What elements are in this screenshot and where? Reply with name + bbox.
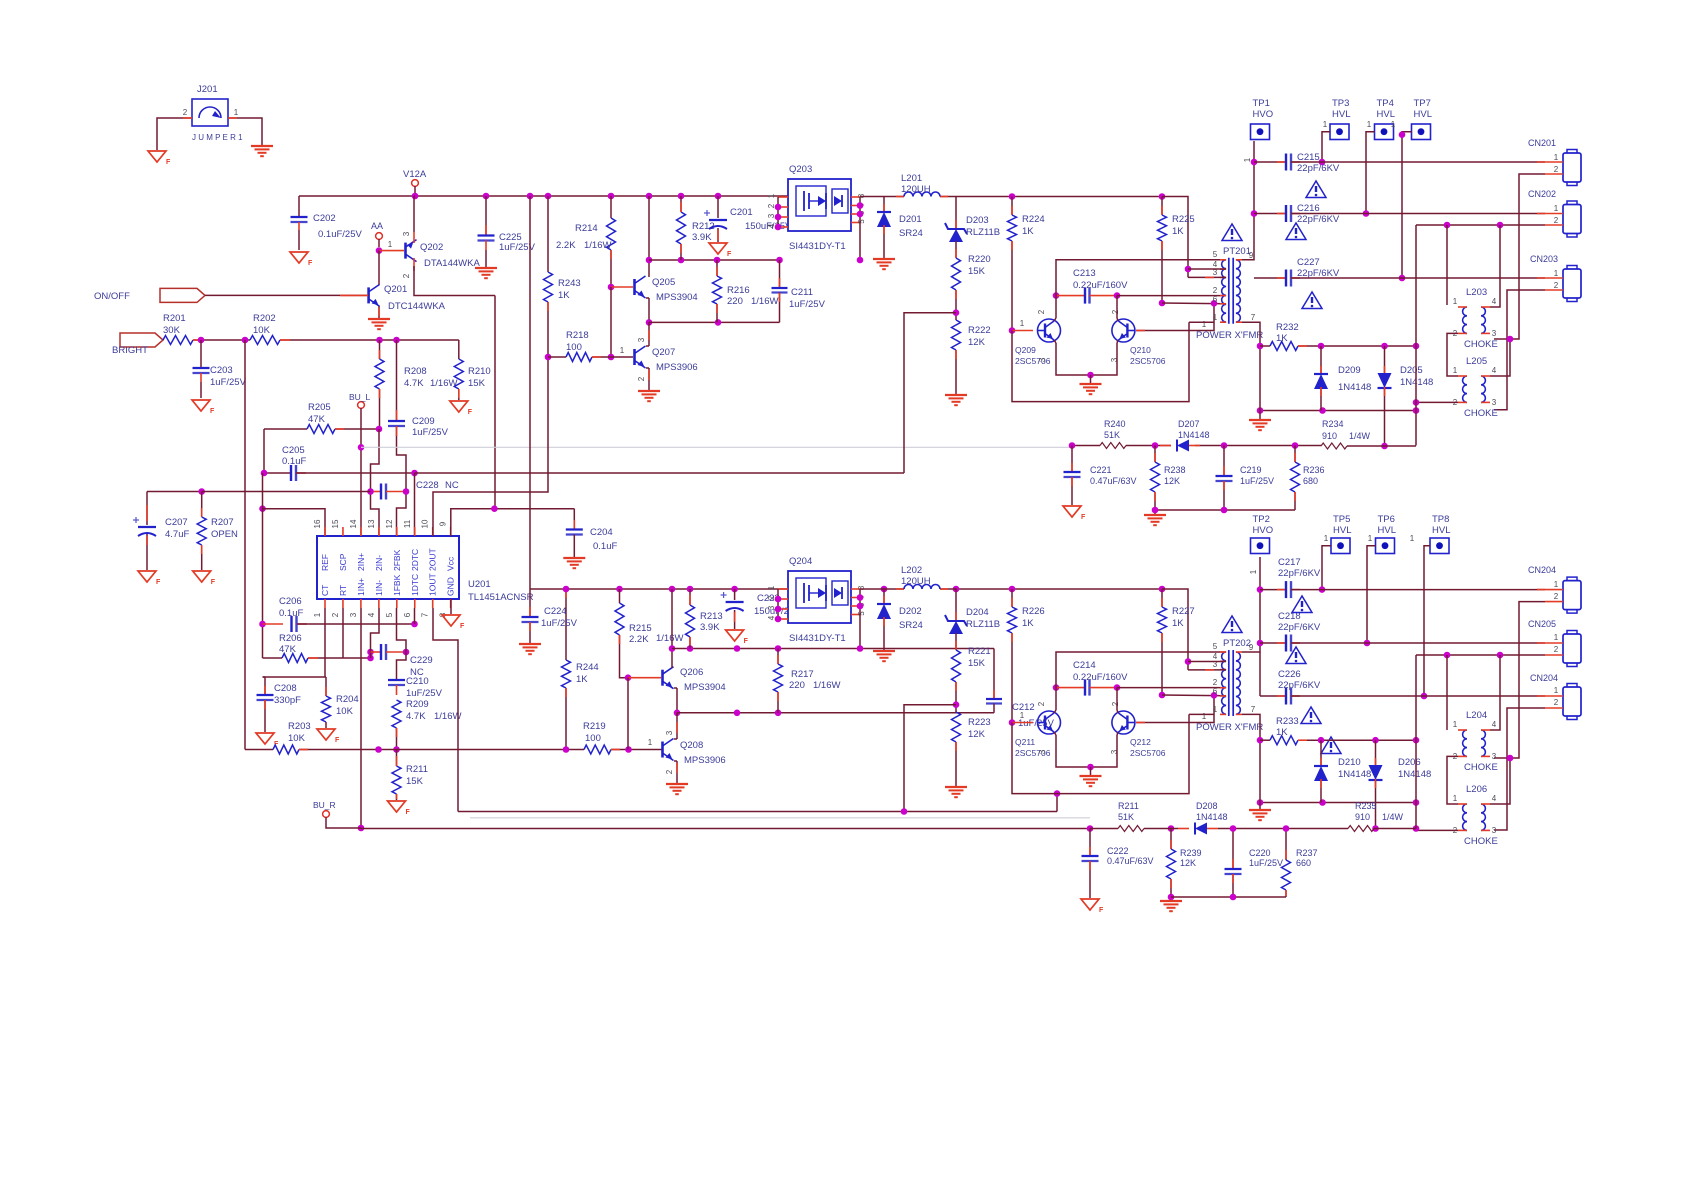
svg-text:DTC144WKA: DTC144WKA	[388, 301, 446, 312]
wire R222 to ground	[955, 350, 957, 394]
svg-text:F: F	[166, 159, 171, 166]
connector CN201	[1567, 150, 1577, 155]
svg-text:2: 2	[1554, 216, 1559, 225]
svg-text:C222: C222	[1107, 846, 1129, 856]
svg-text:1: 1	[1020, 319, 1025, 328]
wire R215 node down to R219 row	[627, 678, 629, 750]
svg-text:10K: 10K	[288, 733, 306, 744]
svg-text:1/16W: 1/16W	[430, 378, 457, 389]
svg-text:C207: C207	[165, 517, 188, 528]
svg-text:4: 4	[367, 612, 376, 617]
wire HV return vertical right	[1415, 225, 1417, 446]
svg-text:C203: C203	[210, 365, 233, 376]
svg-text:1: 1	[1324, 534, 1329, 543]
svg-text:1: 1	[1554, 633, 1559, 642]
svg-text:0.1uF: 0.1uF	[593, 541, 617, 552]
svg-text:DTA144WKA: DTA144WKA	[424, 258, 480, 269]
diode D202 SR24	[883, 589, 885, 605]
svg-text:Q211: Q211	[1015, 737, 1035, 747]
wire L203 pin2 to L205 pin1	[1447, 333, 1458, 376]
svg-text:R233: R233	[1276, 716, 1299, 727]
row 1DTC bottom	[458, 811, 1057, 813]
svg-text:R222: R222	[968, 325, 991, 336]
test point TP2	[1251, 538, 1270, 554]
svg-text:C217: C217	[1278, 557, 1301, 568]
svg-text:R214: R214	[575, 223, 598, 234]
wire BU_L to lamp-sense faint net	[361, 446, 1072, 448]
svg-text:47K: 47K	[308, 414, 326, 425]
svg-text:30K: 30K	[163, 325, 181, 336]
svg-text:CN205: CN205	[1528, 619, 1556, 629]
wire pin7 staircase down	[433, 608, 458, 812]
wire Q208 collector up to row2b	[674, 738, 677, 740]
F ground (R207)	[193, 571, 211, 582]
svg-text:R219: R219	[583, 721, 606, 732]
wire PT202 pin1 down-left	[1189, 713, 1214, 715]
lower rail	[530, 588, 788, 590]
svg-text:C211: C211	[791, 287, 813, 298]
svg-text:2IN-: 2IN-	[374, 555, 384, 571]
earth ground (Q207)	[638, 390, 660, 392]
wire CN203 pin2 to choke L205 pin3	[1494, 290, 1545, 410]
earth ground (Q208)	[666, 783, 688, 785]
wire choke drop to L204 pin1	[1446, 655, 1448, 730]
svg-text:3: 3	[1038, 357, 1047, 362]
transistor Q205 MPS3904	[633, 279, 636, 295]
resistor R201 30K	[163, 336, 193, 345]
svg-text:C213: C213	[1073, 268, 1096, 279]
svg-text:14: 14	[349, 519, 358, 528]
svg-text:RT: RT	[338, 585, 348, 596]
svg-text:2: 2	[665, 769, 674, 774]
svg-text:SR24: SR24	[899, 620, 923, 631]
svg-text:22pF/6KV: 22pF/6KV	[1278, 568, 1321, 579]
svg-text:CT: CT	[320, 585, 330, 596]
junction C221	[1069, 442, 1076, 449]
wire L205 pin2 to HV return	[1416, 401, 1458, 403]
svg-text:OPEN: OPEN	[211, 529, 238, 540]
svg-text:1: 1	[1202, 320, 1207, 329]
svg-text:1FBK: 1FBK	[392, 574, 402, 596]
svg-text:R207: R207	[211, 517, 234, 528]
net BU_L terminal	[358, 402, 365, 409]
svg-text:1: 1	[1453, 794, 1458, 803]
resistor R235 910 1/4W	[1348, 826, 1374, 832]
svg-text:6: 6	[403, 612, 412, 617]
svg-text:C228: C228	[416, 480, 439, 491]
capacitor C202	[298, 196, 300, 217]
IC U201 TL1451ACNSR	[317, 536, 459, 599]
svg-text:1uF/25V: 1uF/25V	[1240, 476, 1274, 486]
svg-text:R202: R202	[253, 313, 276, 324]
transistor Q211 2SC5706	[1038, 711, 1061, 734]
transistor Q202 DTA144WKA	[404, 243, 407, 259]
wire CN204L pin2 to choke L206 pin3	[1494, 708, 1545, 830]
svg-text:D204: D204	[966, 607, 989, 618]
wire REF branch to pin16	[259, 505, 266, 512]
svg-text:1: 1	[1453, 297, 1458, 306]
svg-text:3: 3	[1038, 749, 1047, 754]
wire PT201 pin7 to R232 row	[1242, 322, 1260, 419]
svg-text:HVO: HVO	[1253, 109, 1274, 120]
earth ground (D201)	[873, 258, 895, 260]
wire lower rail right section	[957, 588, 1162, 590]
earth ground (C225)	[475, 267, 497, 269]
wire 1DTC riser	[904, 705, 956, 812]
svg-text:7: 7	[1251, 705, 1256, 714]
svg-text:120UH: 120UH	[901, 184, 931, 195]
capacitor C217 22pF/6KV	[1260, 589, 1286, 591]
svg-text:R238: R238	[1164, 465, 1186, 475]
svg-text:1N4148: 1N4148	[1178, 430, 1210, 440]
svg-text:1: 1	[767, 585, 776, 590]
connector CN205	[1567, 631, 1577, 636]
capacitor C213 0.22uF/160V	[1053, 292, 1060, 299]
transformer PT202	[1228, 650, 1230, 716]
wire PT202 pin4 stub	[1188, 661, 1226, 663]
resistor R209 4.7K	[392, 700, 401, 728]
test point TP1	[1251, 124, 1270, 140]
resistor R236 680	[1294, 446, 1296, 463]
wire R205 right to R208 node	[335, 428, 380, 430]
capacitor C227 22pF/6KV	[1254, 277, 1286, 279]
svg-text:C220: C220	[1249, 848, 1271, 858]
wire CN202 pin2 row to choke L203 pin1	[1416, 224, 1545, 226]
svg-text:2: 2	[767, 595, 776, 600]
wire L206 pin4 riser	[1490, 758, 1510, 804]
resistor R221 15K	[955, 633, 957, 650]
svg-text:51K: 51K	[1118, 812, 1134, 822]
svg-text:1: 1	[234, 108, 239, 117]
wire TP6 to C218 row	[1367, 546, 1376, 643]
svg-text:3: 3	[349, 612, 358, 617]
svg-text:3: 3	[1492, 398, 1497, 407]
wire R236/C219 bottom tie	[1155, 509, 1295, 511]
wire pin6 down to C206 row	[414, 608, 416, 624]
resistor R237 660	[1285, 829, 1287, 861]
svg-text:Q212: Q212	[1130, 737, 1151, 747]
svg-text:F: F	[308, 260, 313, 267]
wire R202 right to R210 corner	[280, 339, 459, 341]
wire R244 bottom to R219 row	[565, 688, 567, 750]
svg-text:PT202: PT202	[1223, 638, 1251, 649]
svg-text:1/16W: 1/16W	[813, 680, 840, 691]
resistor R207 OPEN	[201, 492, 203, 518]
resistor R241 51K	[1118, 826, 1144, 832]
svg-text:1: 1	[1554, 153, 1559, 162]
svg-text:CHOKE: CHOKE	[1464, 408, 1498, 419]
resistor R238 12K	[1154, 446, 1156, 463]
svg-text:CHOKE: CHOKE	[1464, 836, 1498, 847]
svg-text:Q204: Q204	[789, 556, 812, 567]
wire L205 pin4 riser	[1490, 339, 1510, 376]
svg-text:L204: L204	[1466, 710, 1487, 721]
svg-text:2.2K: 2.2K	[556, 240, 576, 251]
row diode return y=410.5	[1260, 410, 1416, 412]
diode D208 1N4148	[1178, 828, 1189, 830]
svg-text:1/4W: 1/4W	[1349, 431, 1371, 441]
wire TP5 to C217 row	[1322, 546, 1331, 590]
F ground (C203)	[192, 400, 210, 411]
svg-text:Q205: Q205	[652, 277, 675, 288]
capacitor C229 NC	[371, 651, 381, 653]
wire Q211 base net to PT202 pin1 row	[1012, 714, 1189, 793]
svg-text:C202: C202	[313, 213, 336, 224]
resistor R222 12K	[952, 320, 961, 350]
capacitor C219 1uF/25V	[1223, 446, 1225, 477]
svg-text:1uF/25V: 1uF/25V	[789, 299, 826, 310]
wire R214 node down to R218 row	[610, 287, 612, 357]
svg-text:0.22uF/160V: 0.22uF/160V	[1073, 672, 1128, 683]
svg-text:1: 1	[648, 738, 653, 747]
svg-text:15: 15	[331, 519, 340, 528]
wire C216 to CN202 pin1	[1291, 213, 1545, 215]
wire J201 pin1 to ground	[228, 118, 262, 145]
svg-text:2SC5706: 2SC5706	[1130, 356, 1166, 366]
svg-text:2OUT: 2OUT	[428, 548, 438, 571]
wire C220/R237 bottom tie	[1171, 896, 1286, 898]
svg-text:Q210: Q210	[1130, 345, 1151, 355]
svg-text:R210: R210	[468, 366, 491, 377]
warning triangle (C216 area)	[1306, 181, 1326, 198]
svg-text:220: 220	[727, 296, 743, 307]
resistor R225 1K	[1161, 197, 1163, 216]
svg-text:CN204: CN204	[1528, 565, 1556, 575]
svg-text:220: 220	[789, 680, 805, 691]
row2 top	[649, 321, 780, 323]
svg-text:7: 7	[421, 612, 430, 617]
resistor R206 47K	[263, 657, 283, 659]
svg-text:1K: 1K	[1022, 618, 1034, 629]
capacitor C209 1uF/25V	[396, 340, 398, 421]
svg-text:F: F	[156, 579, 161, 586]
svg-text:5: 5	[1213, 642, 1218, 651]
resistor R205 47K	[264, 428, 307, 430]
test point TP3	[1330, 124, 1349, 140]
wire R227 to Q212 base and PT202 pin6	[1161, 633, 1163, 695]
svg-text:Vcc: Vcc	[446, 556, 456, 571]
wire PT202 pin3 stub	[1188, 669, 1226, 671]
svg-text:F: F	[744, 638, 749, 645]
net BU_R terminal	[323, 811, 330, 818]
svg-text:CN201: CN201	[1528, 138, 1556, 148]
wire PT201 pin9 to TP1	[1242, 141, 1254, 260]
svg-text:D209: D209	[1338, 365, 1361, 376]
svg-text:ON/OFF: ON/OFF	[94, 291, 130, 302]
svg-text:F: F	[406, 809, 411, 816]
wire C209 bottom staircase to U201 pin12	[397, 426, 407, 536]
svg-text:1: 1	[1554, 686, 1559, 695]
svg-text:R235: R235	[1355, 801, 1377, 811]
svg-text:4: 4	[1492, 720, 1497, 729]
svg-text:L205: L205	[1466, 356, 1487, 367]
svg-text:15K: 15K	[968, 266, 986, 277]
port ON/OFF	[160, 288, 205, 302]
resistor R216 220	[716, 260, 718, 276]
svg-text:J U M P E R 1: J U M P E R 1	[192, 133, 243, 142]
svg-text:SR24: SR24	[899, 228, 923, 239]
svg-text:3: 3	[402, 231, 411, 236]
svg-text:5: 5	[385, 612, 394, 617]
svg-text:22pF/6KV: 22pF/6KV	[1278, 622, 1321, 633]
earth ground (R222)	[945, 394, 967, 396]
svg-text:MPS3904: MPS3904	[684, 682, 726, 693]
wire R206 right to C229 node	[308, 657, 371, 659]
svg-text:1: 1	[1391, 120, 1396, 129]
wire Q201 emitter to ground	[378, 306, 380, 318]
svg-text:2: 2	[1111, 701, 1120, 706]
svg-text:L201: L201	[901, 173, 922, 184]
earth ground (R238)	[1144, 514, 1166, 516]
svg-text:R212: R212	[692, 221, 715, 232]
svg-text:11: 11	[403, 519, 412, 528]
svg-text:D201: D201	[899, 214, 922, 225]
wire C217 to CN204 pin1	[1291, 589, 1545, 591]
svg-text:6: 6	[1213, 295, 1218, 304]
resistor R218 100	[548, 356, 566, 358]
svg-text:15K: 15K	[468, 378, 486, 389]
wire AA to Q202 base	[379, 250, 404, 252]
svg-text:MPS3904: MPS3904	[656, 292, 698, 303]
svg-text:POWER X'FMR: POWER X'FMR	[1196, 722, 1263, 733]
svg-text:R225: R225	[1172, 214, 1195, 225]
warning triangle (PT201)	[1222, 224, 1242, 241]
wire V12A drop to lower rail	[529, 196, 531, 589]
svg-text:C226: C226	[1278, 669, 1301, 680]
resistor R215 2.2K	[619, 589, 621, 603]
svg-text:1uF/25V: 1uF/25V	[1249, 858, 1283, 868]
svg-text:12K: 12K	[968, 729, 986, 740]
svg-text:12K: 12K	[1180, 858, 1196, 868]
wire Q205 collector to rail branch	[648, 196, 650, 277]
capacitor C224 1uF/25V	[529, 589, 531, 617]
wire fbk 2DTC riser	[904, 313, 956, 473]
wire Q203 right pins down to H1 row	[859, 223, 861, 261]
svg-text:2: 2	[637, 376, 646, 381]
svg-text:1uF/25V: 1uF/25V	[406, 688, 443, 699]
svg-text:R206: R206	[279, 633, 302, 644]
svg-text:Q202: Q202	[420, 242, 443, 253]
svg-text:R211: R211	[1118, 801, 1139, 811]
row CT net y=749.5	[245, 749, 273, 751]
svg-text:D206: D206	[1398, 757, 1421, 768]
svg-text:5: 5	[1213, 250, 1218, 259]
svg-text:C227: C227	[1297, 257, 1320, 268]
svg-text:7: 7	[1251, 313, 1256, 322]
svg-text:22pF/6KV: 22pF/6KV	[1297, 163, 1340, 174]
wire pin11 down	[414, 473, 416, 536]
resistor R227 1K	[1161, 589, 1163, 607]
connector CN202	[1567, 201, 1577, 206]
choke L205	[1463, 376, 1467, 402]
svg-text:3.9K: 3.9K	[700, 622, 720, 633]
svg-text:1N4148: 1N4148	[1338, 382, 1371, 393]
wire R220 to R222	[955, 290, 957, 320]
svg-text:Q201: Q201	[384, 284, 407, 295]
svg-text:1: 1	[1213, 705, 1218, 714]
diode D201 SR24	[883, 197, 885, 214]
svg-text:D205: D205	[1400, 365, 1423, 376]
svg-text:10K: 10K	[253, 325, 271, 336]
F ground (R204)	[317, 729, 335, 740]
wire R225 to Q210 base and PT201 pin6	[1161, 241, 1163, 303]
wire R224 to Q209 base	[1011, 241, 1013, 331]
connector CN204	[1567, 577, 1577, 582]
wire R214 to Q205 base	[610, 250, 612, 287]
svg-text:3: 3	[1492, 329, 1497, 338]
capacitor C208 330pF	[263, 676, 266, 678]
svg-text:R223: R223	[968, 717, 991, 728]
wire R209 to CT row	[396, 728, 398, 750]
svg-text:REF: REF	[320, 554, 330, 571]
svg-text:0.22uF/160V: 0.22uF/160V	[1073, 280, 1128, 291]
svg-text:2: 2	[767, 203, 776, 208]
wire Q211 collector to PT202 pin5	[1054, 710, 1056, 713]
wire R221 to R223	[955, 682, 957, 712]
svg-text:HVL: HVL	[1377, 109, 1395, 120]
svg-text:MPS3906: MPS3906	[656, 362, 698, 373]
wire ON/OFF to Q201 base	[205, 294, 369, 296]
F ground (C222)	[1081, 899, 1099, 910]
svg-text:0.47uF/63V: 0.47uF/63V	[1107, 856, 1154, 866]
inductor L202 120UH	[860, 588, 904, 590]
svg-text:R220: R220	[968, 254, 991, 265]
svg-text:AA: AA	[371, 221, 383, 231]
svg-text:1: 1	[1554, 269, 1559, 278]
wire C226 to CN204 pin1	[1291, 695, 1545, 697]
svg-text:R227: R227	[1172, 606, 1195, 617]
svg-text:0.1uF: 0.1uF	[282, 456, 306, 467]
wire L204 pin4 riser	[1490, 655, 1500, 730]
svg-text:2: 2	[1111, 309, 1120, 314]
earth ground (PT202 pin7)	[1249, 809, 1271, 811]
svg-text:C219: C219	[1240, 465, 1262, 475]
capacitor C218 22pF/6KV	[1260, 642, 1286, 644]
capacitor C201 150uF/25V	[717, 196, 719, 218]
svg-text:12: 12	[385, 519, 394, 528]
svg-text:C216: C216	[1297, 203, 1320, 214]
connector CN203	[1567, 266, 1577, 271]
resistor R212 3.9K	[680, 196, 682, 212]
svg-text:4: 4	[767, 223, 776, 228]
resistor R214 2.2K	[610, 196, 612, 218]
svg-text:TL1451ACNSR: TL1451ACNSR	[468, 592, 534, 603]
svg-text:R234: R234	[1322, 419, 1344, 429]
svg-text:L203: L203	[1466, 287, 1487, 298]
capacitor C206 0.1uF	[263, 623, 284, 625]
svg-text:2: 2	[1554, 698, 1559, 707]
capacitor C212 1uF/25V	[993, 649, 995, 700]
svg-text:Q209: Q209	[1015, 345, 1036, 355]
svg-text:2: 2	[1554, 165, 1559, 174]
svg-text:5: 5	[857, 219, 866, 224]
svg-text:1: 1	[1368, 534, 1373, 543]
svg-text:1N4148: 1N4148	[1338, 769, 1371, 780]
earth ground (C224)	[519, 643, 541, 645]
svg-text:910: 910	[1322, 431, 1337, 441]
wire BRIGHT net down to CT row	[244, 340, 246, 750]
transistor Q209 2SC5706	[1038, 319, 1061, 342]
wire rail corner to PT202 pins 3-4	[1162, 589, 1188, 670]
svg-text:3: 3	[1492, 752, 1497, 761]
svg-text:4: 4	[1492, 794, 1497, 803]
capacitor C205 0.1uF	[264, 472, 291, 474]
svg-text:POWER X'FMR: POWER X'FMR	[1196, 330, 1263, 341]
capacitor C223 150uF/25V	[734, 589, 736, 600]
svg-text:F: F	[460, 623, 465, 630]
wire Q205 emitter down	[646, 297, 649, 299]
svg-text:TP7: TP7	[1414, 98, 1431, 109]
